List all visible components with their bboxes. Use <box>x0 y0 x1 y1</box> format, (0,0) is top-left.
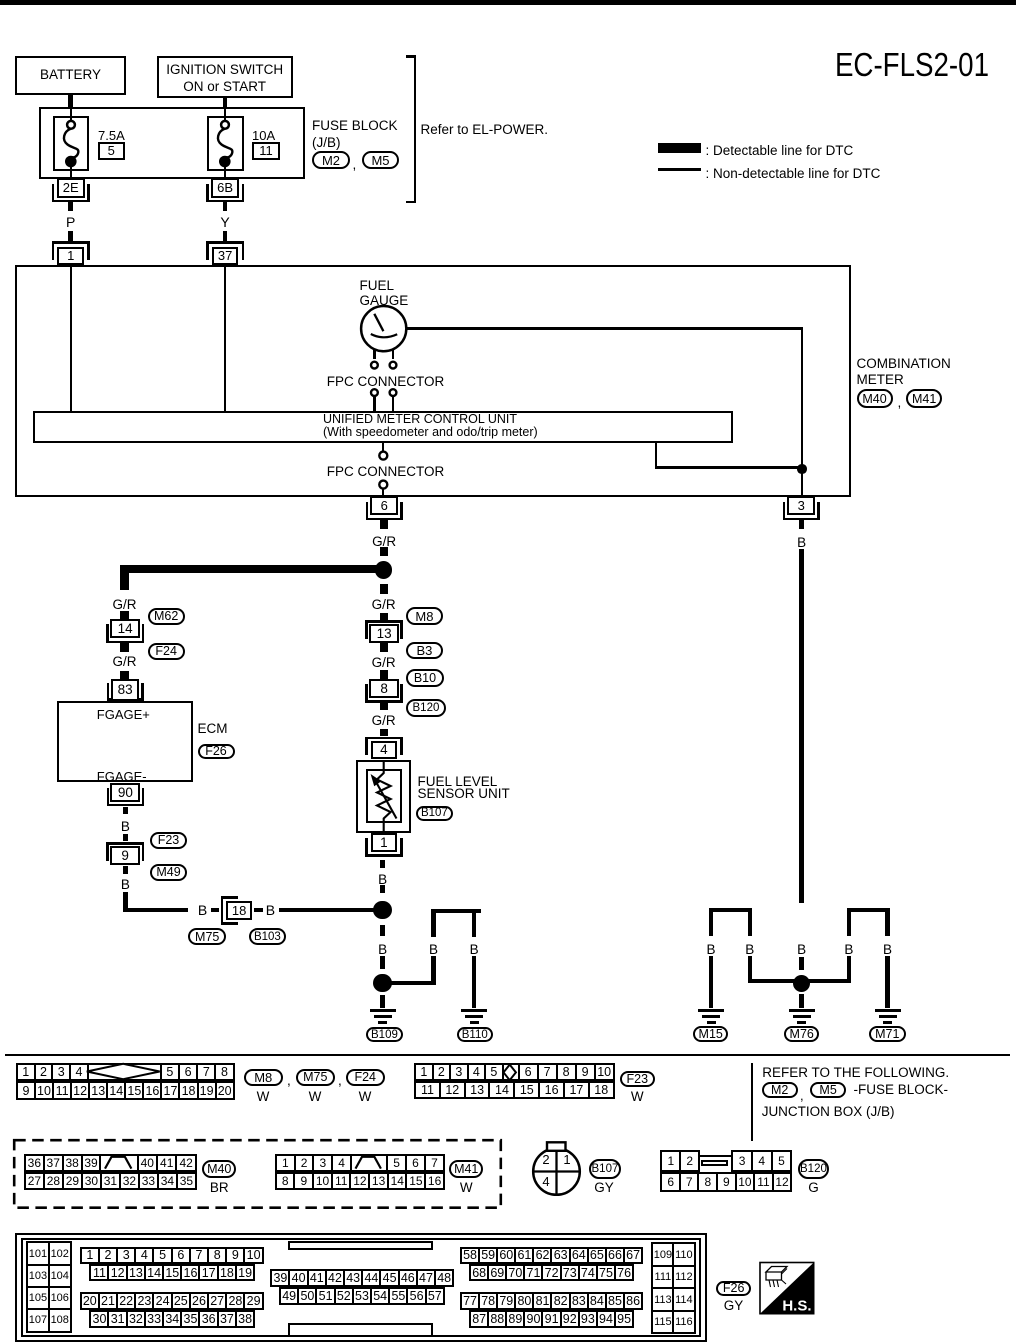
svg-text:H.S.: H.S. <box>782 1298 811 1315</box>
